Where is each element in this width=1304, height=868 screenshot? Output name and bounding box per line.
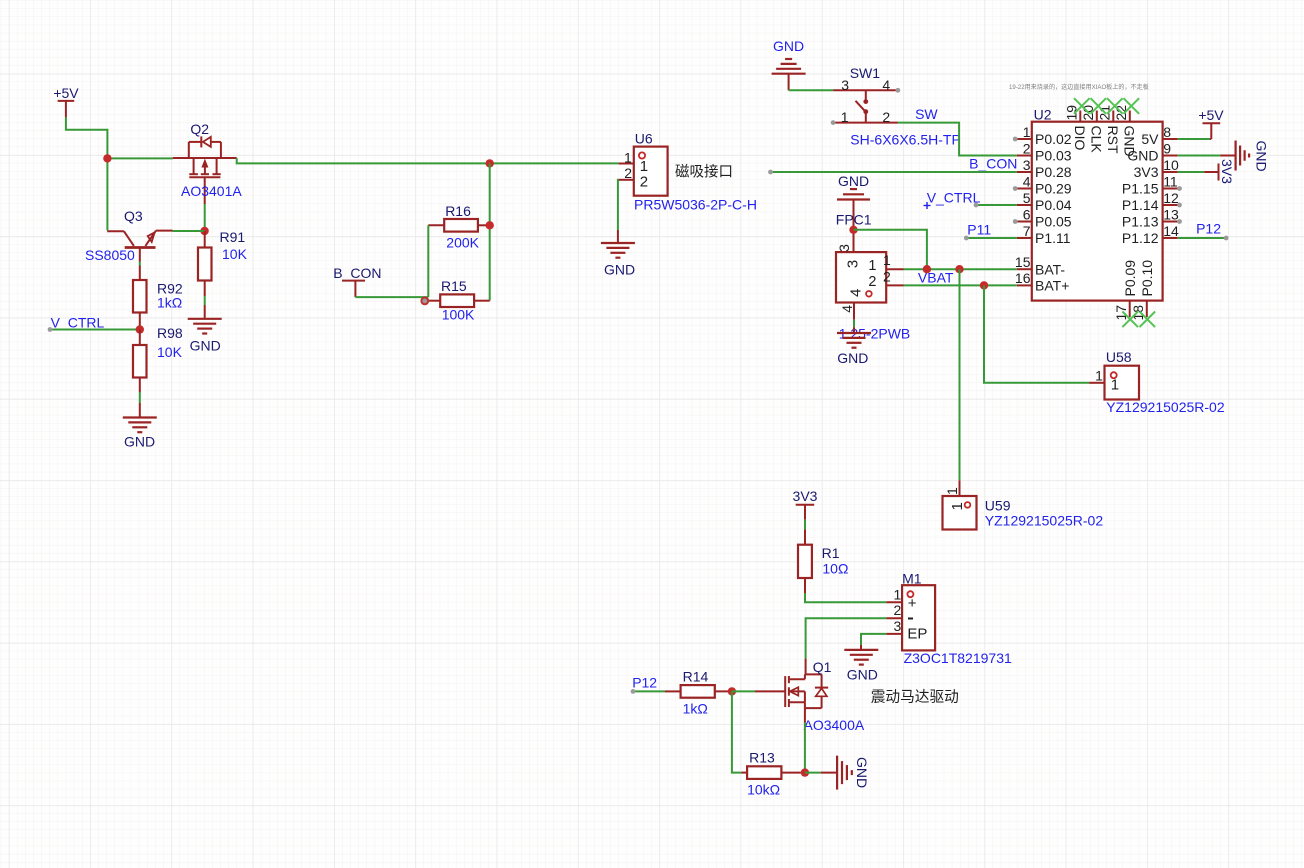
resistor R91 [198, 231, 212, 296]
svg-text:16: 16 [1015, 270, 1031, 286]
junction node C (V_CTRL / R92 / R98) [136, 325, 144, 333]
svg-text:FPC1: FPC1 [836, 212, 872, 228]
svg-text:12: 12 [1163, 190, 1179, 206]
svg-text:1: 1 [841, 109, 849, 125]
svg-text:2: 2 [894, 602, 902, 618]
junction node A [103, 154, 111, 162]
svg-text:P1.15: P1.15 [1122, 181, 1159, 197]
net port dot P12 (bottom) [631, 689, 636, 694]
svg-text:AO3401A: AO3401A [181, 183, 242, 199]
svg-text:4: 4 [1023, 173, 1031, 189]
svg-text:200K: 200K [446, 235, 479, 251]
svg-text:1: 1 [1095, 367, 1103, 383]
switch SW1 [833, 90, 898, 122]
wire FPC1 pin 1 to U2 BAT- (VBAT) [904, 268, 1017, 270]
wire node E to node F [854, 230, 927, 269]
svg-text:P0.10: P0.10 [1139, 260, 1155, 297]
svg-text:3V3: 3V3 [793, 488, 818, 504]
svg-text:P0.29: P0.29 [1035, 181, 1072, 197]
resistor R14 [665, 685, 732, 698]
ground below U6 [601, 230, 635, 278]
svg-text:17: 17 [1113, 305, 1129, 321]
ground flag above FPC1 [837, 173, 870, 252]
svg-text:3: 3 [894, 618, 902, 634]
wire B_CON to U2 pin 3 [771, 171, 1017, 173]
svg-text:V_CTRL: V_CTRL [927, 189, 981, 205]
svg-text:1kΩ: 1kΩ [157, 295, 182, 311]
wire R1 to M1 pin 1 [805, 593, 886, 602]
svg-text:8: 8 [1163, 124, 1171, 140]
net port dot P12 (right) [1224, 236, 1229, 241]
svg-text:RST: RST [1105, 126, 1121, 154]
svg-text:R16: R16 [445, 203, 471, 219]
pad U58 [1089, 366, 1139, 400]
wire FPC1 pin 2 to U2 BAT+ [904, 284, 1017, 286]
svg-text:5: 5 [1023, 190, 1031, 206]
junction node B (Q2 gate / Q3 emitter / R91) [200, 227, 208, 235]
svg-text:AO3400A: AO3400A [804, 717, 865, 733]
power flag 3V3 (right) [1204, 159, 1235, 184]
svg-text:GND: GND [190, 337, 221, 353]
unconnected pin marker at R15 pin 1 [421, 298, 428, 305]
svg-text:R91: R91 [220, 229, 246, 245]
svg-text:GND: GND [837, 350, 868, 366]
junction node D (main wire / R16 branch) [486, 159, 494, 167]
svg-text:SW: SW [915, 106, 938, 122]
svg-text:P0.02: P0.02 [1035, 131, 1072, 147]
transistor Q2 [173, 136, 237, 204]
pin names P0.09,P0.10 (U2 bottom) [1122, 260, 1155, 297]
power flag 3V3 (bottom) [793, 488, 818, 520]
svg-text:BAT+: BAT+ [1035, 278, 1069, 294]
svg-text:P0.28: P0.28 [1035, 164, 1072, 180]
svg-text:2: 2 [1023, 140, 1031, 156]
junction node E (FPC1 pin 3 / GND / wire) [849, 226, 857, 234]
svg-text:R14: R14 [683, 669, 709, 685]
unconnected dot U2 pin 4 [1013, 186, 1018, 191]
svg-text:R15: R15 [441, 278, 467, 294]
svg-text:U59: U59 [985, 497, 1011, 513]
svg-text:P1.12: P1.12 [1122, 230, 1159, 246]
net port dot P11 [964, 236, 969, 241]
svg-text:P1.14: P1.14 [1122, 197, 1159, 213]
svg-text:Q3: Q3 [124, 208, 143, 224]
svg-text:10K: 10K [157, 344, 183, 360]
svg-text:GND: GND [854, 757, 870, 788]
wire P12 to R14 [633, 690, 665, 692]
pin numbers 1-7,15,16 (U2 left) [1015, 124, 1031, 286]
wire R91 to ground [204, 296, 206, 305]
svg-text:11: 11 [1163, 173, 1178, 189]
svg-text:P0.03: P0.03 [1035, 148, 1072, 164]
svg-text:19-22用来烧录的，这边直接用XIAO板上的，不走板: 19-22用来烧录的，这边直接用XIAO板上的，不走板 [1009, 83, 1149, 91]
svg-text:Q2: Q2 [190, 121, 209, 137]
svg-text:2: 2 [640, 173, 648, 190]
svg-text:1: 1 [1111, 377, 1119, 394]
wire P11 to U2 pin 7 [966, 237, 1017, 239]
svg-text:1kΩ: 1kΩ [683, 701, 708, 717]
wire Q3 emitter to node B [173, 230, 205, 232]
svg-text:10kΩ: 10kΩ [747, 782, 780, 798]
svg-text:14: 14 [1163, 223, 1179, 239]
svg-text:3: 3 [1023, 157, 1031, 173]
svg-text:2: 2 [868, 274, 876, 290]
svg-text:P0.04: P0.04 [1035, 197, 1072, 213]
svg-text:13: 13 [1163, 206, 1179, 222]
pin names DIO,CLK,RST,GND (U2 top) [1072, 126, 1138, 157]
svg-text:R1: R1 [822, 545, 840, 561]
svg-text:Z3OC1T8219731: Z3OC1T8219731 [904, 650, 1012, 666]
resistor R1 [798, 529, 812, 593]
svg-text:U6: U6 [635, 130, 653, 146]
svg-text:P1.11: P1.11 [1035, 230, 1071, 246]
wire SW1 pin 2 to U2 pin 2 [898, 123, 1017, 156]
wire node G down to U59 [959, 269, 961, 480]
wire FPC1 pin 4 to ground [853, 320, 855, 328]
svg-text:CLK: CLK [1089, 126, 1105, 154]
svg-text:7: 7 [1023, 223, 1031, 239]
svg-text:P12: P12 [632, 675, 657, 691]
svg-text:GND: GND [1122, 126, 1138, 157]
ground flag right of U2 pin 9 [1220, 141, 1269, 172]
svg-text:VBAT: VBAT [918, 269, 954, 285]
svg-text:P12: P12 [1196, 220, 1221, 236]
svg-text:EP: EP [907, 625, 927, 642]
pad U59 [943, 480, 977, 529]
unconnected dot U2 pin 13 [1177, 219, 1182, 224]
svg-text:磁吸接口: 磁吸接口 [675, 164, 733, 181]
svg-text:PR5W5036-2P-C-H: PR5W5036-2P-C-H [634, 196, 757, 212]
connector FPC1 [836, 252, 904, 320]
ground below R91 [188, 305, 222, 353]
svg-text:+: + [908, 595, 917, 612]
wire U2 pin 9 to GND [1178, 155, 1221, 157]
svg-text:SH-6X6X6.5H-TP: SH-6X6X6.5H-TP [850, 131, 960, 147]
svg-text:震动马达驱动: 震动马达驱动 [871, 689, 959, 706]
power flag +5V (right) [1198, 107, 1224, 139]
junction node G (VBAT wire / U59 branch) [955, 265, 963, 273]
svg-text:R98: R98 [157, 325, 183, 341]
svg-text:2: 2 [882, 109, 890, 125]
svg-text:U58: U58 [1106, 349, 1132, 365]
resistor R92 [133, 266, 147, 330]
svg-text:GND: GND [838, 173, 869, 189]
wire M1 pin 2 to Q1 drain [806, 618, 887, 658]
unconnected dot U2 pin 12 [1177, 203, 1182, 208]
wire node A to Q2 source [107, 157, 172, 159]
resistor R16 [428, 219, 489, 232]
svg-text:9: 9 [1163, 140, 1171, 156]
wire U2 pin 14 to P12 [1178, 237, 1226, 239]
svg-text:YZ129215025R-02: YZ129215025R-02 [985, 513, 1104, 529]
unconnected pin dot SW1 pin 4 [896, 88, 901, 93]
svg-text:3: 3 [836, 244, 852, 252]
IC U2 (XIAO module) [1017, 111, 1178, 318]
junction R16 right [486, 221, 494, 229]
svg-text:4: 4 [848, 289, 865, 297]
svg-text:M1: M1 [902, 571, 922, 587]
svg-text:6: 6 [1023, 206, 1031, 222]
svg-text:1: 1 [624, 149, 632, 165]
svg-text:10K: 10K [222, 246, 248, 262]
no-connect marks pins 17,18 [1122, 312, 1155, 328]
svg-text:V_CTRL: V_CTRL [51, 315, 105, 331]
svg-text:1: 1 [944, 487, 960, 495]
wire U2 pin 8 to +5V [1178, 138, 1210, 140]
pin names P0.02-P1.11, BAT-, BAT+ (U2 left) [1035, 131, 1072, 293]
net port dot V_CTRL (right) [974, 203, 979, 208]
wire M1 pin 3 to ground [861, 634, 886, 645]
svg-text:YZ129215025R-02: YZ129215025R-02 [1106, 399, 1225, 415]
wire node I to Q1 gate [732, 690, 755, 692]
pin numbers 8-14 (U2 right) [1163, 124, 1179, 239]
wire Q2 gate to node B [204, 204, 206, 231]
svg-text:10: 10 [1163, 157, 1179, 173]
svg-text:DIO: DIO [1072, 126, 1088, 151]
unconnected pin dot SW1 pin 1 [831, 120, 836, 125]
wire R98 to ground [139, 392, 141, 403]
wire 3V3 to R1 [804, 520, 806, 530]
power flag +5V (top-left) [53, 85, 79, 117]
svg-text:5V: 5V [1141, 131, 1159, 147]
net port dot B_CON [768, 170, 773, 175]
svg-text:3V3: 3V3 [1134, 164, 1159, 180]
svg-text:GND: GND [773, 38, 804, 54]
junction node J (Q1 source / R13 / GND) [801, 768, 809, 776]
wire U6 pin 2 to ground [617, 180, 620, 230]
wire GND to SW1 pin 3 [789, 89, 834, 91]
svg-text:+5V: +5V [1198, 107, 1224, 123]
svg-text:SS8050: SS8050 [85, 247, 135, 263]
wire Q1 source down to node J [804, 723, 806, 773]
svg-text:R13: R13 [749, 750, 775, 766]
svg-text:B_CON: B_CON [333, 265, 381, 281]
wire V_CTRL to U2 pin 5 [976, 204, 1017, 206]
ground below M1 pin 3 [844, 645, 878, 683]
resistor R98 [133, 330, 147, 393]
svg-text:GND: GND [1254, 141, 1270, 172]
pin name - (M1) [908, 618, 913, 620]
resistor R15 [427, 294, 490, 307]
wire Q3 base to R92 [139, 262, 141, 266]
svg-text:BAT-: BAT- [1035, 261, 1065, 277]
wire node H to U58 [984, 285, 1089, 382]
svg-text:GND: GND [124, 433, 155, 449]
wire node D down to R15 [489, 163, 491, 300]
svg-text:SW1: SW1 [850, 65, 881, 81]
wire node A down to Q3 collector [106, 158, 108, 230]
svg-text:+5V: +5V [53, 85, 79, 101]
svg-text:1: 1 [640, 158, 648, 175]
svg-text:P0.05: P0.05 [1035, 214, 1072, 230]
transistor Q3 [107, 231, 172, 262]
net port B_CON (middle) [333, 265, 381, 297]
svg-text:4: 4 [839, 305, 855, 313]
svg-text:U2: U2 [1034, 106, 1052, 122]
svg-text:B_CON: B_CON [969, 155, 1017, 171]
svg-text:GND: GND [847, 667, 878, 683]
svg-text:15: 15 [1015, 254, 1031, 270]
svg-text:19: 19 [1064, 105, 1080, 121]
svg-text:GND: GND [604, 262, 635, 278]
anchor mark V_CTRL [924, 202, 931, 209]
no-connect marks pins 19-22 [1074, 98, 1139, 114]
wire +5V to node A [66, 117, 108, 158]
ground below R98 [123, 403, 157, 449]
unconnected dot U2 pin 11 [1177, 186, 1182, 191]
svg-text:10Ω: 10Ω [822, 561, 848, 577]
svg-text:P1.13: P1.13 [1122, 214, 1159, 230]
net flag GND above SW1 [772, 38, 806, 90]
wire R16 left branch [427, 225, 429, 297]
junction node I (R14 / Q1 gate / R13) [728, 687, 736, 695]
pin names 5V,GND,3V3,P1.15-P1.12 (U2 right) [1122, 131, 1159, 246]
svg-text:2: 2 [883, 268, 891, 284]
svg-text:3: 3 [841, 77, 849, 93]
svg-text:100K: 100K [442, 307, 475, 323]
unconnected dot U2 pin 6 [1013, 219, 1018, 224]
net port dot V_CTRL [48, 327, 53, 332]
ground below FPC1 [837, 327, 871, 366]
pin numbers 19-22 (U2 top) [1064, 105, 1130, 121]
connector U6 [619, 147, 668, 196]
svg-text:P11: P11 [967, 222, 991, 238]
unconnected dot U2 pin 1 [1013, 137, 1018, 142]
svg-text:3: 3 [845, 260, 862, 268]
junction node H (BAT+ wire / U58 branch) [980, 281, 988, 289]
svg-text:4: 4 [882, 77, 890, 93]
wire B_CON to R15 [355, 296, 428, 298]
junction node F (VBAT wire / node E branch) [923, 265, 931, 273]
connector M1 [886, 585, 935, 650]
ground right of node J [821, 756, 870, 790]
svg-text:3V3: 3V3 [1219, 159, 1235, 184]
svg-text:Q1: Q1 [813, 659, 832, 675]
pin numbers 17,18 (U2 bottom) [1113, 305, 1146, 321]
svg-text:1: 1 [883, 252, 891, 268]
wire U2 pin 10 to 3V3 [1178, 171, 1205, 173]
svg-text:1: 1 [949, 502, 966, 510]
svg-text:1: 1 [894, 586, 902, 602]
svg-text:1: 1 [868, 258, 876, 274]
wire V_CTRL to node C [50, 329, 140, 331]
transistor Q1 [755, 659, 828, 723]
svg-text:2: 2 [624, 165, 632, 181]
wire Q2 drain to U6 pin 1 [237, 158, 619, 163]
svg-text:P0.09: P0.09 [1122, 260, 1138, 297]
wire node I down to R13 [732, 691, 742, 772]
resistor R13 [742, 766, 801, 779]
svg-text:1: 1 [1023, 124, 1031, 140]
wire node J to ground [805, 772, 821, 774]
